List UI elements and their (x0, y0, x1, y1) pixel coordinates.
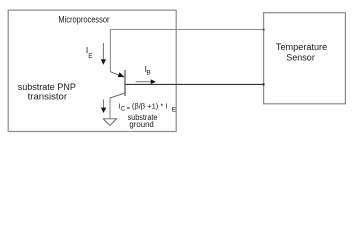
label IC = (beta/beta+1) * IE formula (118, 101, 176, 113)
wire emitter to Temperature Sensor (top) (110, 29, 263, 31)
label IB (145, 65, 151, 77)
svg-text:Temperature: Temperature (276, 42, 327, 52)
svg-text:Microprocessor: Microprocessor (58, 15, 109, 25)
current arrow IB head (151, 79, 156, 84)
svg-text:=: = (127, 106, 131, 112)
svg-text:substrate PNP: substrate PNP (18, 82, 76, 92)
label Temperature Sensor (276, 42, 327, 63)
current arrow IC head (101, 108, 106, 113)
transistor Q1 base bar (124, 70, 126, 96)
junction dot at sensor pin (base wire) (263, 83, 265, 85)
svg-text:B: B (146, 69, 150, 76)
wire collector vertical to ground (109, 98, 111, 118)
current arrow IC shaft (103, 100, 105, 108)
transistor Q1 emitter diagonal (110, 72, 124, 78)
label substrate ground (128, 113, 158, 129)
junction dot at sensor pin (top wire) (263, 29, 265, 31)
svg-text:E: E (88, 53, 93, 60)
wire base to Temperature Sensor (126, 83, 264, 85)
Microprocessor block U1 (8, 10, 176, 131)
current arrow IE shaft (102, 43, 104, 59)
wire emitter vertical (109, 30, 111, 72)
svg-text:E: E (172, 107, 177, 114)
svg-text:ground: ground (129, 120, 153, 129)
svg-text:C: C (121, 106, 126, 112)
svg-text:(β/β +1) * I: (β/β +1) * I (132, 101, 168, 110)
Temperature Sensor block U2 (264, 13, 346, 104)
transistor Q1 collector diagonal (110, 93, 124, 98)
current arrow IB shaft (136, 81, 151, 83)
label substrate PNP transistor (18, 82, 76, 102)
svg-text:Sensor: Sensor (286, 52, 315, 62)
ground (substrate ground symbol) (103, 119, 116, 126)
current arrow IE head (101, 59, 106, 65)
transistor Q1 emitter arrowhead (PNP, pointing into base) (118, 72, 125, 77)
svg-text:transistor: transistor (28, 92, 68, 102)
label IE (86, 45, 93, 60)
